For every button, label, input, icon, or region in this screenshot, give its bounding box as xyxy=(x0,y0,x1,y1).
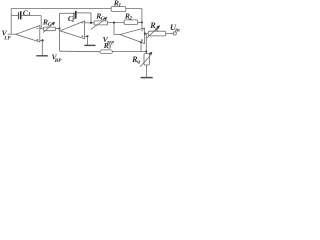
capacitor C1 xyxy=(11,8,41,19)
wire U3 to Rg xyxy=(145,33,149,35)
wire top feedback bus xyxy=(11,8,111,10)
svg-text:LP: LP xyxy=(3,35,11,41)
node R3 / Rq junction xyxy=(145,51,147,53)
svg-text:G: G xyxy=(101,16,105,22)
capacitor C2 xyxy=(60,11,92,24)
wire RG2 to VHP node xyxy=(108,22,125,24)
node U2 plus xyxy=(86,35,88,37)
resistor R2 xyxy=(124,11,138,24)
ground bottom right xyxy=(141,77,153,79)
svg-text:BP: BP xyxy=(54,58,62,64)
potentiometer Rg xyxy=(147,21,166,38)
wire bottom bus VBP xyxy=(60,50,101,53)
node slant junction xyxy=(140,41,142,43)
wire C1 to U1 inverting input xyxy=(40,16,42,29)
potentiometer RG2 xyxy=(91,11,108,29)
wire U1 inverting input to RG1 xyxy=(40,28,44,30)
wire R1/R2 riser to U3 inverting input xyxy=(142,9,145,29)
potentiometer Rq vertical xyxy=(131,52,152,67)
wire RG1 to U2 output node xyxy=(56,28,60,30)
svg-text:in: in xyxy=(175,28,180,34)
op-amp U3 (pointing left) xyxy=(120,28,145,44)
wire Rg to input terminal xyxy=(166,32,174,34)
wire slant junction to bottom bus xyxy=(140,42,142,51)
wire U1 plus input xyxy=(40,39,43,41)
ground under U1 xyxy=(41,40,43,55)
wire VHP riser to U3 output xyxy=(114,23,120,35)
svg-text:G: G xyxy=(48,22,52,28)
node RG1 / C2 / U2 output xyxy=(58,27,60,29)
node VHP xyxy=(113,22,115,24)
svg-text:3: 3 xyxy=(107,44,111,50)
op-amp U1 (pointing left) xyxy=(16,26,40,43)
terminal Ui circle xyxy=(173,32,176,35)
wire op-amp U1 output to terminal xyxy=(8,33,16,35)
node R2/R1 riser xyxy=(141,21,143,23)
svg-text:2: 2 xyxy=(71,18,75,24)
svg-text:q: q xyxy=(137,59,140,65)
wire C2 riser to U2 inverting input xyxy=(90,13,92,23)
wire Rg node riser down xyxy=(145,34,147,54)
svg-text:1: 1 xyxy=(118,2,121,8)
wire U2 apex riser xyxy=(59,13,61,51)
svg-text:g: g xyxy=(154,26,158,32)
wire U2 inverting input line xyxy=(85,22,94,24)
resistor R3 xyxy=(100,41,146,54)
wire U2 plus input xyxy=(85,35,88,37)
node U3 edge / Rg xyxy=(144,32,146,34)
wire R2 to riser xyxy=(138,21,142,23)
op-amp U2 (pointing left) xyxy=(60,21,85,39)
potentiometer RG1 xyxy=(42,18,56,33)
node U1 plus xyxy=(42,39,44,41)
svg-text:1: 1 xyxy=(28,12,31,18)
svg-text:2: 2 xyxy=(128,15,132,21)
node C2 / U2 inverting input xyxy=(90,22,92,24)
wire output riser left xyxy=(10,9,12,35)
ground under U2 xyxy=(86,36,88,45)
wire Rq to ground xyxy=(146,65,148,77)
resistor R1 xyxy=(111,0,142,11)
